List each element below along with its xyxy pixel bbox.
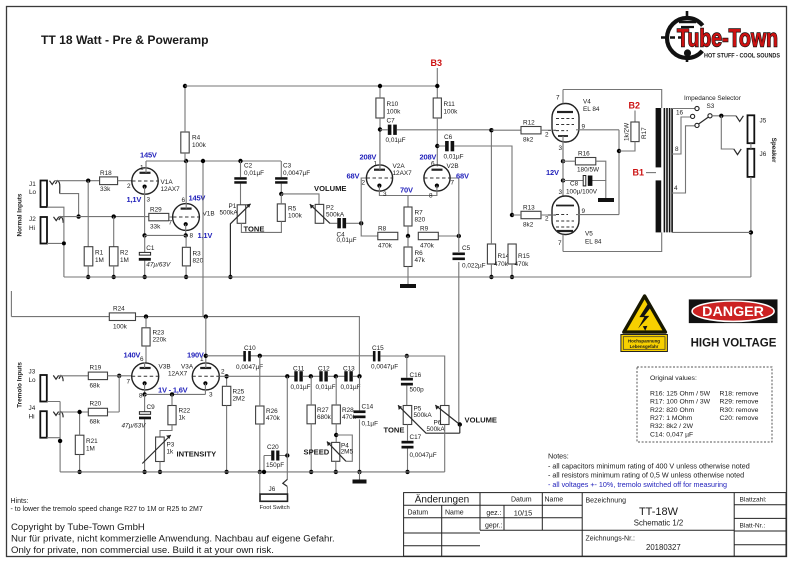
ground symbol below R6 <box>400 284 416 288</box>
svg-text:33k: 33k <box>150 224 161 231</box>
node C4/V2A grid <box>359 221 363 225</box>
nodes between caps <box>309 374 313 378</box>
svg-text:100µ/100V: 100µ/100V <box>566 189 598 196</box>
svg-text:R16: 125 Ohm / 5W: R16: 125 Ohm / 5W <box>650 390 711 397</box>
svg-text:C17: C17 <box>410 434 422 441</box>
svg-text:C8: C8 <box>570 181 579 188</box>
svg-text:2: 2 <box>362 180 366 187</box>
title block texts <box>408 494 767 553</box>
svg-text:1M: 1M <box>86 446 95 453</box>
capacitor C11 <box>291 366 311 392</box>
svg-text:0,0047µF: 0,0047µF <box>410 452 437 459</box>
resistor R18 <box>100 170 118 193</box>
svg-text:Lebensgefahr: Lebensgefahr <box>630 344 659 349</box>
svg-text:0,0047µF: 0,0047µF <box>236 364 263 371</box>
svg-text:R4: R4 <box>192 135 201 142</box>
resistor R16 <box>563 151 606 181</box>
svg-text:VOLUME: VOLUME <box>465 416 498 425</box>
capacitor C8 <box>563 176 606 199</box>
svg-text:R29: remove: R29: remove <box>720 399 759 406</box>
svg-text:C13: C13 <box>343 366 355 373</box>
switch S3 <box>672 103 715 193</box>
svg-text:B1: B1 <box>633 168 645 178</box>
wire pole to jacks <box>712 115 736 117</box>
jack J6 speaker <box>748 149 767 177</box>
wire J1 tip row <box>55 180 100 182</box>
resistor R4 <box>181 86 207 161</box>
svg-text:2: 2 <box>221 369 225 376</box>
node V4 cathode junctions <box>561 159 565 163</box>
svg-text:Copyright by Tube-Town GmbH: Copyright by Tube-Town GmbH <box>11 522 145 533</box>
svg-text:R32: 8k2 / 2W: R32: 8k2 / 2W <box>650 423 694 430</box>
svg-text:Änderungen: Änderungen <box>415 494 470 506</box>
svg-text:- all capacitors minimum ratin: - all capacitors minimum rating of 400 V… <box>548 461 750 470</box>
svg-text:0,01µF: 0,01µF <box>337 237 357 244</box>
svg-text:Tremolo Inputs: Tremolo Inputs <box>17 362 24 408</box>
svg-text:B3: B3 <box>431 58 443 68</box>
svg-text:J5: J5 <box>760 118 767 125</box>
svg-text:R25: R25 <box>233 389 245 396</box>
wire tremolo supply rail <box>11 291 359 376</box>
wire plate rail <box>146 160 281 162</box>
node V3B cathode <box>142 392 146 396</box>
svg-text:Impedance Selector: Impedance Selector <box>684 95 742 102</box>
capacitor C15 <box>371 345 398 371</box>
warning triangle sign <box>621 296 668 352</box>
wire V2A grid riser <box>361 178 378 236</box>
svg-text:SPEED: SPEED <box>304 448 330 457</box>
capacitor C3 <box>275 161 310 194</box>
svg-text:R7: R7 <box>415 210 424 217</box>
svg-text:Lo: Lo <box>29 377 37 384</box>
svg-text:V2B: V2B <box>447 163 459 170</box>
wire J3 tip row <box>59 375 89 377</box>
svg-text:150pF: 150pF <box>266 462 284 469</box>
resistor R1 <box>84 247 104 266</box>
svg-text:3: 3 <box>559 145 563 152</box>
svg-text:2M5: 2M5 <box>341 449 354 456</box>
jack J2 <box>29 216 63 244</box>
svg-text:7: 7 <box>558 240 562 247</box>
jack J5 tip contact <box>736 116 743 122</box>
resistor R27 <box>307 376 332 472</box>
svg-text:V5: V5 <box>585 231 593 238</box>
svg-text:100k: 100k <box>288 213 303 220</box>
resistor R13 <box>512 205 548 229</box>
svg-text:TT-18W: TT-18W <box>639 506 679 518</box>
svg-text:470k: 470k <box>515 261 530 268</box>
svg-text:J4: J4 <box>29 405 36 412</box>
svg-text:7: 7 <box>556 95 560 102</box>
title block <box>404 493 786 557</box>
svg-text:Notes:: Notes: <box>548 452 569 461</box>
wire R2 riser <box>113 217 115 247</box>
wire B3 stub <box>436 68 438 98</box>
wire cathode row <box>145 234 186 236</box>
svg-text:Hints:: Hints: <box>11 498 29 505</box>
svg-text:C6: C6 <box>444 134 453 141</box>
wire J2 tip row <box>59 216 149 218</box>
jack J5 <box>748 115 767 143</box>
resistor R6 <box>404 236 426 284</box>
svg-text:VOLUME: VOLUME <box>314 184 347 193</box>
svg-text:S3: S3 <box>707 103 715 110</box>
svg-text:8: 8 <box>190 233 194 240</box>
svg-text:R17: R17 <box>641 127 648 139</box>
svg-text:680k: 680k <box>317 414 332 421</box>
svg-text:3: 3 <box>559 189 563 196</box>
svg-text:1k: 1k <box>167 449 175 456</box>
svg-text:P2: P2 <box>326 205 334 212</box>
node V1B cathode <box>184 233 188 237</box>
node C15 right <box>405 354 409 358</box>
svg-text:R13: R13 <box>523 205 535 212</box>
wire C15 to P6 top <box>380 356 444 406</box>
svg-text:0,01µF: 0,01µF <box>386 137 406 144</box>
svg-text:4: 4 <box>674 185 678 192</box>
node J1/R1 junction <box>86 179 90 183</box>
wire secondary bottom <box>672 231 751 233</box>
tube V2B 12AX7 <box>408 161 459 200</box>
svg-text:R19: R19 <box>90 365 102 372</box>
svg-text:Bezeichnung: Bezeichnung <box>586 498 627 505</box>
wire J4 tip row <box>59 411 89 413</box>
svg-text:100k: 100k <box>387 109 402 116</box>
wire B1 tap <box>646 172 656 174</box>
node R19/R20 junction <box>117 374 121 378</box>
svg-text:8k2: 8k2 <box>523 222 534 229</box>
svg-text:12V: 12V <box>546 168 559 177</box>
resistor R2 <box>109 247 128 266</box>
svg-text:C20: C20 <box>267 444 279 451</box>
resistor R22 <box>160 394 191 437</box>
svg-text:1,1V: 1,1V <box>198 231 213 240</box>
resistor R24 <box>109 306 135 331</box>
tube V5 EL84 <box>545 189 619 252</box>
svg-text:68V: 68V <box>456 172 469 181</box>
wire B+ feed vertical <box>202 161 204 317</box>
svg-text:R8: R8 <box>378 226 387 233</box>
wire R8 R9 row <box>378 235 459 237</box>
ground rail top section <box>64 276 751 278</box>
svg-text:R11: R11 <box>444 101 456 108</box>
jack J1 <box>29 181 60 208</box>
svg-text:- to lower the tremolo speed c: - to lower the tremolo speed change R27 … <box>11 506 203 513</box>
svg-text:1: 1 <box>374 161 378 168</box>
node P5/P6 wiper junction <box>458 422 462 426</box>
transformer core <box>664 108 672 232</box>
jack J6 tip contact <box>734 149 741 155</box>
DANGER sign <box>689 299 778 323</box>
wire J1 sleeve <box>47 207 64 243</box>
svg-text:1k: 1k <box>179 415 187 422</box>
svg-text:C9: C9 <box>147 404 156 411</box>
svg-text:DANGER: DANGER <box>702 303 764 319</box>
jack J6 tip wire <box>721 116 734 149</box>
wire screen rail <box>618 130 620 215</box>
svg-text:Hi: Hi <box>29 225 35 232</box>
svg-text:R28: R28 <box>342 407 354 414</box>
svg-text:R24: R24 <box>113 306 125 313</box>
svg-text:7: 7 <box>127 379 131 386</box>
svg-text:C20: remove: C20: remove <box>720 415 759 422</box>
wire grid join <box>108 376 132 412</box>
svg-text:500kA: 500kA <box>326 212 345 219</box>
resistor R5 <box>277 194 302 222</box>
resistor R28 <box>332 376 357 442</box>
svg-text:8: 8 <box>429 193 433 200</box>
wire cathode chain <box>562 142 564 196</box>
svg-text:10/15: 10/15 <box>514 509 533 518</box>
logo tube cathode dot <box>684 49 691 56</box>
wire footswitch riser <box>286 376 288 479</box>
svg-text:Lo: Lo <box>29 189 37 196</box>
resistor R23 <box>142 317 167 363</box>
svg-text:- all voltages +- 10%, tremolo: - all voltages +- 10%, tremolo switched … <box>548 480 727 489</box>
svg-text:V3A: V3A <box>181 364 194 371</box>
tube V2A 12AX7 <box>362 130 413 208</box>
svg-text:500kA: 500kA <box>427 426 446 433</box>
svg-text:- all resistors minimum rating: - all resistors minimum rating of 0,5 W … <box>548 471 744 480</box>
svg-text:C14: C14 <box>362 404 374 411</box>
svg-text:R16: R16 <box>578 151 590 158</box>
wire P6 bottom to rail <box>444 425 446 472</box>
wire speaker sleeve return <box>750 143 752 277</box>
svg-text:R29: R29 <box>150 207 162 214</box>
svg-text:12AX7: 12AX7 <box>161 186 181 193</box>
resistor R9 <box>418 226 438 250</box>
svg-text:Zeichnungs-Nr.:: Zeichnungs-Nr.: <box>586 535 635 542</box>
node B3 rail left end <box>183 84 187 88</box>
svg-text:R23: R23 <box>153 330 165 337</box>
svg-text:208V: 208V <box>360 153 377 162</box>
svg-text:R30: remove: R30: remove <box>720 407 759 414</box>
svg-text:V1A: V1A <box>161 179 174 186</box>
svg-text:470k: 470k <box>420 243 435 250</box>
svg-text:470k: 470k <box>494 261 509 268</box>
ground symbol below rail <box>353 480 367 484</box>
logo crosshair horizontal dashes <box>661 36 683 39</box>
svg-text:2M2: 2M2 <box>233 396 246 403</box>
resistor R8 <box>378 226 398 250</box>
svg-text:2: 2 <box>127 183 131 190</box>
ground symbol C8 <box>598 198 614 202</box>
svg-text:C16: C16 <box>410 372 422 379</box>
svg-text:Blatt-Nr.:: Blatt-Nr.: <box>740 522 766 529</box>
svg-text:100k: 100k <box>192 142 207 149</box>
svg-text:Speaker: Speaker <box>770 138 777 163</box>
svg-text:R21: R21 <box>86 438 98 445</box>
svg-text:R6: R6 <box>415 250 424 257</box>
resistor R26 <box>256 356 281 472</box>
svg-text:R18: remove: R18: remove <box>720 390 759 397</box>
logo tube symbol <box>679 11 696 62</box>
svg-text:Normal Inputs: Normal Inputs <box>17 193 24 236</box>
svg-text:C7: C7 <box>387 118 396 125</box>
resistor R11 <box>433 98 458 166</box>
wire V4 plate to primary <box>563 90 662 109</box>
svg-text:HIGH VOLTAGE: HIGH VOLTAGE <box>691 338 777 350</box>
capacitor C12 <box>316 366 336 392</box>
svg-text:470k: 470k <box>266 415 281 422</box>
capacitor C20 <box>264 444 287 472</box>
svg-text:0,1µF: 0,1µF <box>362 421 379 428</box>
potentiometer P3 <box>142 435 174 472</box>
wire R1 riser <box>87 181 89 247</box>
svg-text:470k: 470k <box>378 243 393 250</box>
resistor R14 <box>487 130 509 277</box>
svg-text:0,022µF: 0,022µF <box>462 263 486 270</box>
svg-text:190V: 190V <box>187 351 204 360</box>
svg-text:C5: C5 <box>462 245 471 252</box>
svg-text:68k: 68k <box>90 419 101 426</box>
svg-text:820: 820 <box>415 217 426 224</box>
node R26 top <box>258 354 262 358</box>
svg-text:12AX7: 12AX7 <box>393 170 413 177</box>
svg-text:Hi: Hi <box>29 414 35 421</box>
svg-text:180/5W: 180/5W <box>577 167 600 174</box>
svg-text:20180327: 20180327 <box>646 543 681 552</box>
svg-text:R27: 1 MOhm: R27: 1 MOhm <box>650 415 693 422</box>
wire P1 R5 bottom U <box>241 221 281 232</box>
capacitor C16 <box>401 356 424 406</box>
Tube-Town logo <box>661 11 780 62</box>
svg-text:R20: R20 <box>90 401 102 408</box>
jack J4 <box>29 405 64 438</box>
svg-text:TONE: TONE <box>244 225 265 234</box>
svg-text:220k: 220k <box>153 337 168 344</box>
svg-text:C3: C3 <box>283 163 292 170</box>
wire cathode row trem <box>145 393 206 395</box>
tremolo ground rail <box>60 471 445 473</box>
wire R18 to V1A grid <box>118 180 132 182</box>
svg-text:INTENSITY: INTENSITY <box>177 450 217 459</box>
svg-text:Blattzahl:: Blattzahl: <box>740 497 767 504</box>
svg-text:R9: R9 <box>420 226 429 233</box>
svg-text:R27: R27 <box>317 407 329 414</box>
svg-text:Datum: Datum <box>511 497 532 504</box>
svg-text:Name: Name <box>445 510 464 517</box>
svg-text:47µ/63V: 47µ/63V <box>146 262 171 269</box>
svg-text:500kA: 500kA <box>220 210 239 217</box>
svg-text:6: 6 <box>431 161 435 168</box>
svg-text:R15: R15 <box>518 253 530 260</box>
svg-text:C15: C15 <box>372 345 384 352</box>
svg-text:820: 820 <box>193 258 204 265</box>
capacitor C5 <box>453 236 486 425</box>
wire C3 bottom to P2 top <box>281 194 319 205</box>
svg-text:Only for private, non commerci: Only for private, non commercial use. Bu… <box>11 545 274 556</box>
svg-text:70V: 70V <box>400 186 413 195</box>
resistor R10 <box>376 86 401 170</box>
capacitor C1 <box>139 235 171 277</box>
node C20 riser <box>285 374 289 378</box>
svg-text:3: 3 <box>209 392 213 399</box>
wire V5 plate to primary <box>563 232 662 251</box>
svg-text:J6: J6 <box>269 486 276 493</box>
jack J6 footswitch <box>260 472 290 511</box>
svg-text:C10: C10 <box>244 345 256 352</box>
svg-text:2: 2 <box>545 216 549 223</box>
svg-text:33k: 33k <box>100 186 111 193</box>
svg-text:R1: R1 <box>95 250 104 257</box>
svg-text:R26: R26 <box>266 408 278 415</box>
svg-text:2: 2 <box>545 132 549 139</box>
svg-text:R18: R18 <box>100 170 112 177</box>
svg-text:Foot Switch: Foot Switch <box>260 505 290 511</box>
svg-text:V3B: V3B <box>159 364 171 371</box>
footswitch contact <box>283 479 288 486</box>
resistor R29 <box>149 207 169 231</box>
svg-text:1M: 1M <box>95 257 104 264</box>
svg-text:gepr.:: gepr.: <box>485 522 503 529</box>
capacitor C7 <box>380 118 491 145</box>
resistor R17 <box>619 111 648 152</box>
resistor R21 <box>75 412 98 472</box>
capacitor C10 <box>206 345 374 371</box>
potentiometer P2 <box>310 204 345 223</box>
potentiometer P6 <box>427 405 460 433</box>
capacitor C4 <box>330 218 361 244</box>
svg-text:0,01µF: 0,01µF <box>316 384 336 391</box>
capacitor C6 <box>437 134 512 215</box>
svg-text:0,0047µF: 0,0047µF <box>283 170 310 177</box>
node V3A rail <box>204 314 208 318</box>
svg-text:500kA: 500kA <box>414 412 433 419</box>
svg-text:0,01µF: 0,01µF <box>444 154 464 161</box>
svg-text:8k2: 8k2 <box>523 137 534 144</box>
svg-text:16: 16 <box>676 110 684 117</box>
capacitor C13 <box>341 366 361 392</box>
svg-text:J6: J6 <box>760 151 767 158</box>
svg-text:7: 7 <box>169 220 173 227</box>
svg-text:0,01µF: 0,01µF <box>291 384 311 391</box>
svg-text:Original values:: Original values: <box>650 375 697 382</box>
svg-text:68k: 68k <box>90 383 101 390</box>
notes <box>548 452 750 490</box>
potentiometer P5 <box>398 405 460 433</box>
node C6 <box>435 144 439 148</box>
svg-text:8: 8 <box>139 393 143 400</box>
resistor R12 <box>491 120 548 144</box>
svg-text:145V: 145V <box>140 151 157 160</box>
svg-text:TONE: TONE <box>384 426 405 435</box>
svg-text:C14: 0,047 µF: C14: 0,047 µF <box>650 431 693 438</box>
resistor R7 <box>404 207 426 236</box>
svg-text:P3: P3 <box>167 442 175 449</box>
svg-text:1k/2W: 1k/2W <box>624 122 631 141</box>
wire V2B grid riser <box>450 178 459 236</box>
svg-text:J2: J2 <box>29 216 36 223</box>
svg-text:R3: R3 <box>193 251 202 258</box>
tube V1B 12AX7 <box>169 161 215 240</box>
svg-text:47k: 47k <box>415 257 426 264</box>
svg-text:Nur für private, nicht kommerz: Nur für private, nicht kommerzielle Anwe… <box>11 534 335 545</box>
tube V4 EL84 <box>545 90 619 162</box>
potentiometer P1 <box>220 203 251 277</box>
svg-text:C11: C11 <box>293 366 305 373</box>
node C5 top <box>457 234 461 238</box>
capacitor C14 <box>354 376 379 472</box>
capacitor C2 <box>234 161 264 205</box>
svg-text:3: 3 <box>383 191 387 198</box>
resistor R20 <box>88 401 107 426</box>
svg-text:R10: R10 <box>387 101 399 108</box>
svg-text:Tube-Town: Tube-Town <box>677 25 778 53</box>
node P4 top <box>334 433 338 437</box>
svg-text:R12: R12 <box>523 120 535 127</box>
resistor R19 <box>88 365 107 390</box>
